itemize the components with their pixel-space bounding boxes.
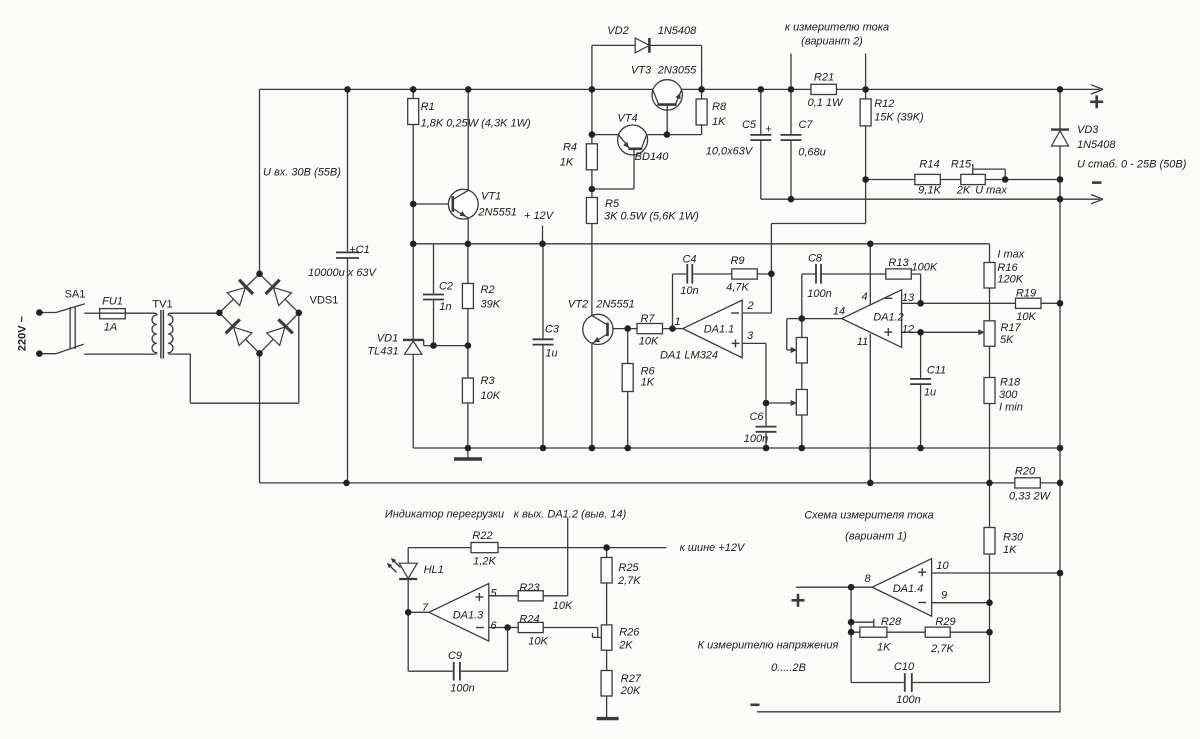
wire R10 wiper [787,318,802,320]
svg-text:220V ~: 220V ~ [17,315,29,351]
svg-text:FU1: FU1 [102,296,123,308]
svg-text:5K: 5K [1000,334,1014,346]
junction [1002,176,1009,183]
wire R16 R17 R18 column [989,244,991,483]
svg-text:DA1.3: DA1.3 [453,610,484,622]
junction [296,310,303,317]
wire R12 column [865,89,867,179]
trimmer R10 (U fine) [796,338,807,364]
resistor R13 [886,269,912,279]
bridge diode VDS1 lower-right [267,327,285,345]
bridge rectifier VDS1 arms [219,274,259,313]
svg-text:R30: R30 [1003,532,1024,544]
svg-text:VT1: VT1 [481,191,501,203]
transformer TV1 [152,313,157,354]
label meas plus sign [792,599,805,602]
wire resistor R8 column [701,89,703,134]
junction [430,342,437,349]
svg-text:R7: R7 [640,313,655,325]
svg-text:9,1K: 9,1K [918,185,941,197]
junction [669,325,676,332]
svg-text:R13: R13 [888,257,909,269]
svg-text:U вх. 30В (55В): U вх. 30В (55В) [263,167,341,179]
svg-text:1K: 1K [641,377,655,389]
wire R24 to R26 wiper [597,628,599,638]
junction [589,86,596,93]
junction [848,584,855,591]
svg-text:10,0x63V: 10,0x63V [706,146,754,158]
op-amp DA1.1 [683,300,743,358]
junction [763,400,770,407]
ground symbol R27 [597,717,619,720]
junction [788,196,795,203]
wire VD1 ref to divider [423,340,425,346]
capacitor C2 [422,294,445,301]
wire capacitor C9 loop [407,612,409,671]
resistor R23 [518,591,543,601]
wire DA1.4 pin9 line [932,602,990,604]
junction [917,300,924,307]
svg-text:1A: 1A [104,322,117,334]
junction [465,86,472,93]
svg-text:R16: R16 [997,262,1018,274]
wire C4 R9 feedback [672,274,674,329]
wire R15 wiper [972,164,974,175]
svg-text:R29: R29 [935,616,955,628]
wire C8 R13 feedback [802,273,921,275]
svg-text:R22: R22 [472,530,492,542]
svg-text:R9: R9 [730,255,744,267]
svg-text:R28: R28 [881,616,902,628]
svg-text:+ 12V: + 12V [524,210,555,222]
svg-text:15K (39K): 15K (39K) [874,112,924,124]
svg-text:R23: R23 [519,582,540,594]
junction [1057,300,1064,307]
svg-text:3K 0.5W (5,6K 1W): 3K 0.5W (5,6K 1W) [604,211,699,223]
diode VD3 [1051,128,1069,130]
wire pin3 to R11 wiper [766,402,795,404]
svg-text:C5: C5 [742,119,757,131]
svg-text:1u: 1u [545,348,557,360]
junction [848,619,855,626]
svg-text:120K: 120K [997,274,1023,286]
junction [1057,445,1064,452]
wire DA1.2 pin13 line [902,302,1060,304]
wire capacitor C7 column [790,89,792,199]
svg-text:C6: C6 [749,411,764,423]
svg-text:2K: 2K [956,185,971,197]
svg-text:DA1.4: DA1.4 [893,583,924,595]
svg-text:I min: I min [999,402,1023,414]
wire R12 to DA1.1 pin2 [865,180,867,224]
svg-text:2N5551: 2N5551 [477,207,517,219]
svg-text:10000u x 63V: 10000u x 63V [308,267,378,279]
svg-text:10K: 10K [528,636,548,648]
resistor R2 [462,284,473,309]
wire DA1.2 pin11 stub [869,334,871,483]
wire meter stub right [865,54,867,90]
capacitor C6 [755,426,778,433]
wire diode VD2 loop [591,45,593,89]
svg-text:SA1: SA1 [65,289,86,301]
junction [788,86,795,93]
wire capacitor C5 column [760,89,762,199]
wire output column [1059,89,1061,712]
wire raw negative rail [260,482,1061,484]
junction [867,480,874,487]
capacitor C8 [815,263,822,285]
svg-text:100n: 100n [744,433,768,445]
svg-text:7: 7 [422,602,429,614]
transistor VT4 body [618,125,648,155]
svg-text:2N5551: 2N5551 [595,299,635,311]
svg-text:к вых. DA1.2 (выв. 14): к вых. DA1.2 (выв. 14) [514,509,627,521]
svg-text:100n: 100n [450,683,474,695]
junction [465,445,472,452]
trimmer R26 [601,625,612,650]
transistor VT3 internals [657,103,676,106]
svg-text:C11: C11 [927,365,946,377]
junction [624,325,631,332]
wire VT3 base to VT4 [592,134,702,136]
svg-text:2,7K: 2,7K [930,643,954,655]
junction [986,629,993,636]
junction [917,329,924,336]
junction [504,624,511,631]
svg-text:C10: C10 [894,661,915,673]
capacitor C4 [686,263,693,285]
svg-text:1K: 1K [1003,544,1017,556]
svg-text:TV1: TV1 [152,299,172,311]
svg-text:C3: C3 [545,324,560,336]
junction [589,131,596,138]
bridge diode VDS1 upper-left [227,288,245,306]
svg-text:10K: 10K [481,390,501,402]
transistor VT1 body [448,189,478,219]
svg-text:BD140: BD140 [635,151,670,163]
svg-text:10: 10 [936,560,949,572]
svg-text:VDS1: VDS1 [310,295,339,307]
wire DA1.3 pin5 line [489,595,568,597]
label output minus sign [1092,181,1102,184]
resistor R7 [637,324,663,334]
op-amp DA1.3 [429,584,489,642]
svg-text:R20: R20 [1015,466,1036,478]
junction [344,86,351,93]
svg-text:R26: R26 [619,627,640,639]
svg-text:DA1 LM324: DA1 LM324 [660,350,718,362]
svg-text:Индикатор перегрузки: Индикатор перегрузки [385,509,504,521]
resistor R21 [811,84,837,94]
svg-text:6: 6 [490,620,497,632]
junction [603,544,610,551]
resistor R9 [732,269,758,279]
svg-text:1n: 1n [439,301,451,313]
resistor R12 [860,99,871,126]
wire VT1 base [413,203,453,205]
junction [1057,86,1064,93]
op-amp DA1.3 input signs [475,596,483,598]
svg-text:0,68u: 0,68u [798,147,826,159]
resistor R8 [696,99,707,125]
wire left drop to bridge [259,89,261,273]
svg-text:C4: C4 [682,254,696,266]
junction [1057,196,1064,203]
fuse FU1 [100,309,126,319]
svg-text:10K: 10K [553,600,573,612]
capacitor C1 [335,251,360,259]
svg-text:Схема измерителя тока: Схема измерителя тока [804,510,934,522]
svg-text:DA1.2: DA1.2 [873,312,904,324]
resistor R20 [1015,478,1041,488]
wire DA1.2 pin12 line [902,331,983,333]
wire R30 column [989,483,991,683]
wire VT2 base R7 line [608,328,673,330]
svg-text:(вариант 1): (вариант 1) [845,531,907,543]
wire DA1.4 pin8 line [796,586,872,588]
op-amp DA1.1 input signs [731,312,739,314]
svg-text:R3: R3 [481,375,496,387]
wire input top rail [260,88,1101,90]
junction [256,350,263,357]
output + arrow [1091,89,1103,94]
wire capacitor C10 loop [850,632,852,682]
wire to DA1.2 output drop [567,518,569,596]
svg-text:+C1: +C1 [349,244,370,256]
svg-text:1K: 1K [712,116,726,128]
wire R28 wiper [851,621,874,623]
svg-text:20K: 20K [620,685,641,697]
transistor VT2 body [583,314,613,344]
wire R25 R26 R27 column [606,548,608,719]
svg-text:R2: R2 [481,284,495,296]
svg-text:R15: R15 [951,159,972,171]
trimmer R11 wiper arrow [791,400,797,406]
wire +12V rail [413,243,989,245]
wire R28 input drop [850,587,852,632]
junction [624,445,631,452]
wire primary bottom [84,353,152,355]
resistor R27 [601,671,612,697]
svg-text:13: 13 [902,292,915,304]
trimmer R10 wiper arrow [791,347,797,353]
svg-text:C7: C7 [798,119,813,131]
bridge diode VDS1 lower-left [234,327,252,345]
op-amp DA1.4 [872,559,931,617]
svg-text:R4: R4 [563,142,577,154]
junction [589,186,596,193]
junction [465,241,472,248]
resistor R24 [518,622,543,632]
wire bridge right return [298,313,300,403]
junction [799,445,806,452]
svg-text:300: 300 [999,389,1018,401]
junction [986,480,993,487]
resistor R3 [462,378,473,403]
svg-text:К измерителю напряжения: К измерителю напряжения [698,640,839,652]
junction [405,609,412,616]
svg-text:100K: 100K [912,262,938,274]
trimmer R17 (I adj) [984,321,995,347]
resistor R25 [601,558,612,584]
wire capacitor C1 column [347,89,349,483]
resistor R18 [984,378,995,404]
wire capacitor C3 column [542,244,544,448]
svg-text:5: 5 [490,588,497,600]
svg-text:R25: R25 [619,562,640,574]
shunt regulator VD1 TL431 [403,339,424,341]
wire mains bottom [39,353,56,355]
capacitor C5 [749,134,772,141]
svg-text:C9: C9 [448,650,462,662]
trimmer R28 [860,627,887,637]
svg-text:8: 8 [864,573,871,585]
LED HL1 [399,563,417,578]
wire DA1.1 pin3 [742,342,766,344]
svg-text:1u: 1u [924,387,936,399]
junction [1057,570,1064,577]
junction [862,86,869,93]
svg-text:2: 2 [746,300,753,312]
svg-text:VT3: VT3 [631,65,652,77]
trimmer R11 (U coarse) [796,390,807,416]
wire DA1.2 pin4 stub [869,244,871,305]
resistor R29 [925,627,950,637]
svg-text:VD1: VD1 [377,333,398,345]
junction [36,350,43,357]
svg-text:+: + [765,124,771,136]
junction [768,271,775,278]
svg-text:3: 3 [747,330,754,342]
svg-text:12: 12 [902,324,914,336]
wire HL1 column [407,548,409,613]
capacitor C11 [909,378,932,385]
resistor R19 [1016,298,1042,308]
svg-text:R1: R1 [421,101,435,113]
svg-text:1,8K 0,25W (4,3K 1W): 1,8K 0,25W (4,3K 1W) [421,118,531,130]
wire DA1.2 output [802,318,842,320]
wire R14 R15 line [866,179,1060,181]
junction [986,599,993,606]
svg-text:2N3055: 2N3055 [657,65,697,77]
wire DA1.3 input from HL1 [408,611,429,613]
resistor R22 [471,543,498,553]
wire output minus rail [761,198,1100,200]
svg-text:R19: R19 [1016,288,1036,300]
wire R22 bus line [408,547,666,549]
svg-text:VD3: VD3 [1077,124,1099,136]
wire +12V label stub [542,226,544,244]
svg-text:VT2: VT2 [568,299,588,311]
resistor R16 [984,263,995,289]
label meas minus sign [751,703,760,706]
bridge diode VDS1 upper-right [274,288,292,306]
label output plus sign [1090,101,1103,104]
svg-text:0.....2В: 0.....2В [771,662,806,674]
trimmer R17 wiper arrow [978,329,984,335]
svg-text:4: 4 [861,291,867,303]
svg-text:1,2K: 1,2K [473,556,496,568]
svg-text:R24: R24 [519,614,539,626]
svg-text:11: 11 [857,336,868,348]
ground symbol main [467,448,469,459]
svg-text:R27: R27 [621,673,642,685]
resistor R1 [408,99,419,125]
svg-text:R18: R18 [1000,377,1021,389]
svg-text:TL431: TL431 [367,346,398,358]
svg-text:R21: R21 [814,72,834,84]
junction [698,86,705,93]
junction [410,241,417,248]
wire capacitor C11 column [920,332,922,448]
junction [410,201,417,208]
junction [917,445,924,452]
svg-text:1N5408: 1N5408 [1077,139,1116,151]
svg-text:1K: 1K [877,642,891,654]
switch SA1 blades [56,304,85,313]
capacitor C9 [453,661,461,682]
svg-text:R17: R17 [1001,322,1022,334]
wire capacitor C2 branch [433,244,435,346]
svg-text:C2: C2 [439,281,453,293]
junction [867,241,874,248]
wire meter stub left [790,54,792,90]
resistor R14 [915,174,941,184]
wire R2 R3 column [467,244,469,448]
wire mains top [39,312,56,314]
svg-text:к шине +12V: к шине +12V [680,542,746,554]
wire VT1 collector-emitter column [467,89,469,243]
svg-text:1N5408: 1N5408 [658,25,697,37]
transistor VT2 internals [606,323,609,337]
svg-text:I max: I max [997,249,1024,261]
wire switch to fuse [84,312,99,314]
wire VT4 base down [633,149,635,189]
svg-text:2,7K: 2,7K [617,575,641,587]
junction [216,310,223,317]
svg-text:0,33 2W: 0,33 2W [1009,491,1052,503]
svg-text:100n: 100n [807,288,831,300]
wire DA1.3 pin6 line [489,627,598,629]
resistor R6 [622,364,633,392]
resistor R5 [586,198,597,224]
svg-text:9: 9 [941,590,947,602]
capacitor C3 [532,338,555,345]
op-amp DA1.2 input signs [884,297,892,299]
svg-text:R5: R5 [605,198,620,210]
junction [36,309,43,316]
transistor VT4 internals [628,148,642,151]
junction [799,315,806,322]
svg-text:R14: R14 [919,159,939,171]
junction [1057,480,1064,487]
junction [465,342,472,349]
svg-text:2K: 2K [618,640,633,652]
wire DA1.4 pin10 line [932,572,1060,574]
junction [862,176,869,183]
svg-text:к измерителю тока: к измерителю тока [785,22,889,34]
junction [763,445,770,452]
svg-text:1K: 1K [560,157,574,169]
junction [848,629,855,636]
resistor R4 [586,144,597,170]
svg-text:HL1: HL1 [424,564,444,576]
op-amp DA1.4 input signs [918,571,926,573]
svg-text:14: 14 [833,306,845,318]
wire R4 R5 VT2 column [591,89,593,448]
svg-text:(вариант 2): (вариант 2) [801,36,863,48]
junction [664,131,671,138]
